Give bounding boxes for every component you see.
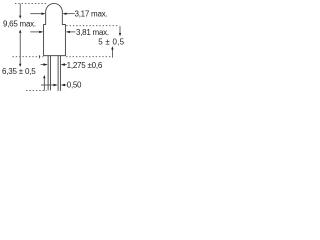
svg-text:5 ± 0,5: 5 ± 0,5 [98,38,124,47]
svg-text:3,17 max.: 3,17 max. [75,10,108,19]
svg-text:9,65 max.: 9,65 max. [3,19,36,28]
svg-text:6,35 ± 0,5: 6,35 ± 0,5 [2,67,36,76]
svg-text:1,275 ±0,6: 1,275 ±0,6 [67,61,103,70]
svg-text:3,81 max.: 3,81 max. [76,28,109,37]
svg-text:0,50: 0,50 [67,80,82,89]
